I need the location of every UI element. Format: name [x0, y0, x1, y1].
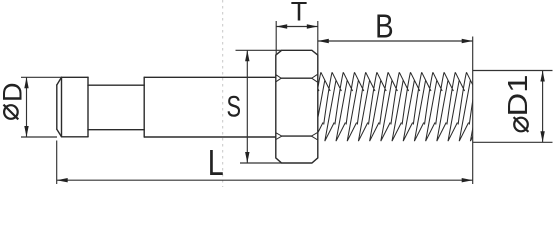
label dia-D1 (rotated)	[502, 75, 533, 117]
dim L line	[57, 179, 473, 181]
cap top edge	[62, 76, 89, 78]
svg-text:S: S	[226, 90, 241, 123]
dim T ext right / B ext left	[317, 21, 319, 55]
dim B line	[318, 40, 473, 42]
cap right edge	[87, 77, 89, 137]
thread	[301, 72, 487, 141]
body left edge	[143, 77, 145, 137]
body bottom edge	[144, 136, 276, 138]
dia symbol slash of D	[4, 105, 19, 120]
arrow D bottom	[24, 126, 28, 137]
dim S line	[246, 50, 248, 163]
cap left face	[56, 85, 58, 129]
dim T line	[276, 26, 318, 28]
svg-text:T: T	[291, 0, 308, 26]
dim S ext top	[236, 49, 282, 51]
shaft top edge	[88, 84, 144, 86]
label dia-D (rotated)	[0, 83, 28, 103]
dia symbol slash of D1	[514, 117, 529, 132]
dia symbol circle of D1	[514, 118, 528, 132]
svg-text:D: D	[0, 83, 28, 103]
arrow S top	[245, 50, 249, 61]
svg-text:L: L	[208, 142, 224, 183]
dim D1 line	[542, 71, 544, 143]
arrow T right	[307, 24, 318, 28]
dim T ext left	[275, 21, 277, 55]
cap bottom chamfer	[57, 129, 62, 137]
svg-text:B: B	[375, 8, 394, 45]
svg-text:D1: D1	[502, 75, 533, 117]
arrow S bottom	[245, 152, 249, 163]
hex lower face chamfer marks	[276, 133, 317, 140]
arrow B right	[462, 39, 473, 43]
table column separator (dashed)	[222, 0, 224, 187]
cap top chamfer	[57, 77, 62, 85]
cap inner edge	[61, 77, 63, 137]
dim D1 ext top	[473, 70, 553, 72]
dim S ext bottom	[240, 162, 282, 164]
arrow D1 top	[540, 71, 544, 82]
hex lower face line	[282, 135, 312, 137]
arrow B left	[318, 39, 329, 43]
dim D ext top	[21, 76, 62, 78]
arrow L right	[462, 178, 473, 182]
hex outline	[276, 50, 318, 163]
arrow D top	[24, 77, 28, 88]
hex upper face chamfer marks	[276, 75, 317, 82]
shaft bottom edge	[88, 129, 144, 131]
arrow T left	[276, 24, 287, 28]
dim D line	[26, 77, 28, 137]
dim D1 ext bottom	[473, 141, 553, 143]
dim L ext left	[56, 141, 58, 185]
dia symbol circle of D	[4, 105, 18, 119]
cap bottom edge	[62, 136, 89, 138]
dim D ext bottom	[21, 136, 57, 138]
thread end edge / B-D1-L ext	[472, 37, 474, 185]
hex upper face line	[281, 77, 312, 79]
body top edge	[144, 76, 276, 78]
arrow D1 bottom	[540, 131, 544, 142]
arrow L left	[57, 178, 68, 182]
